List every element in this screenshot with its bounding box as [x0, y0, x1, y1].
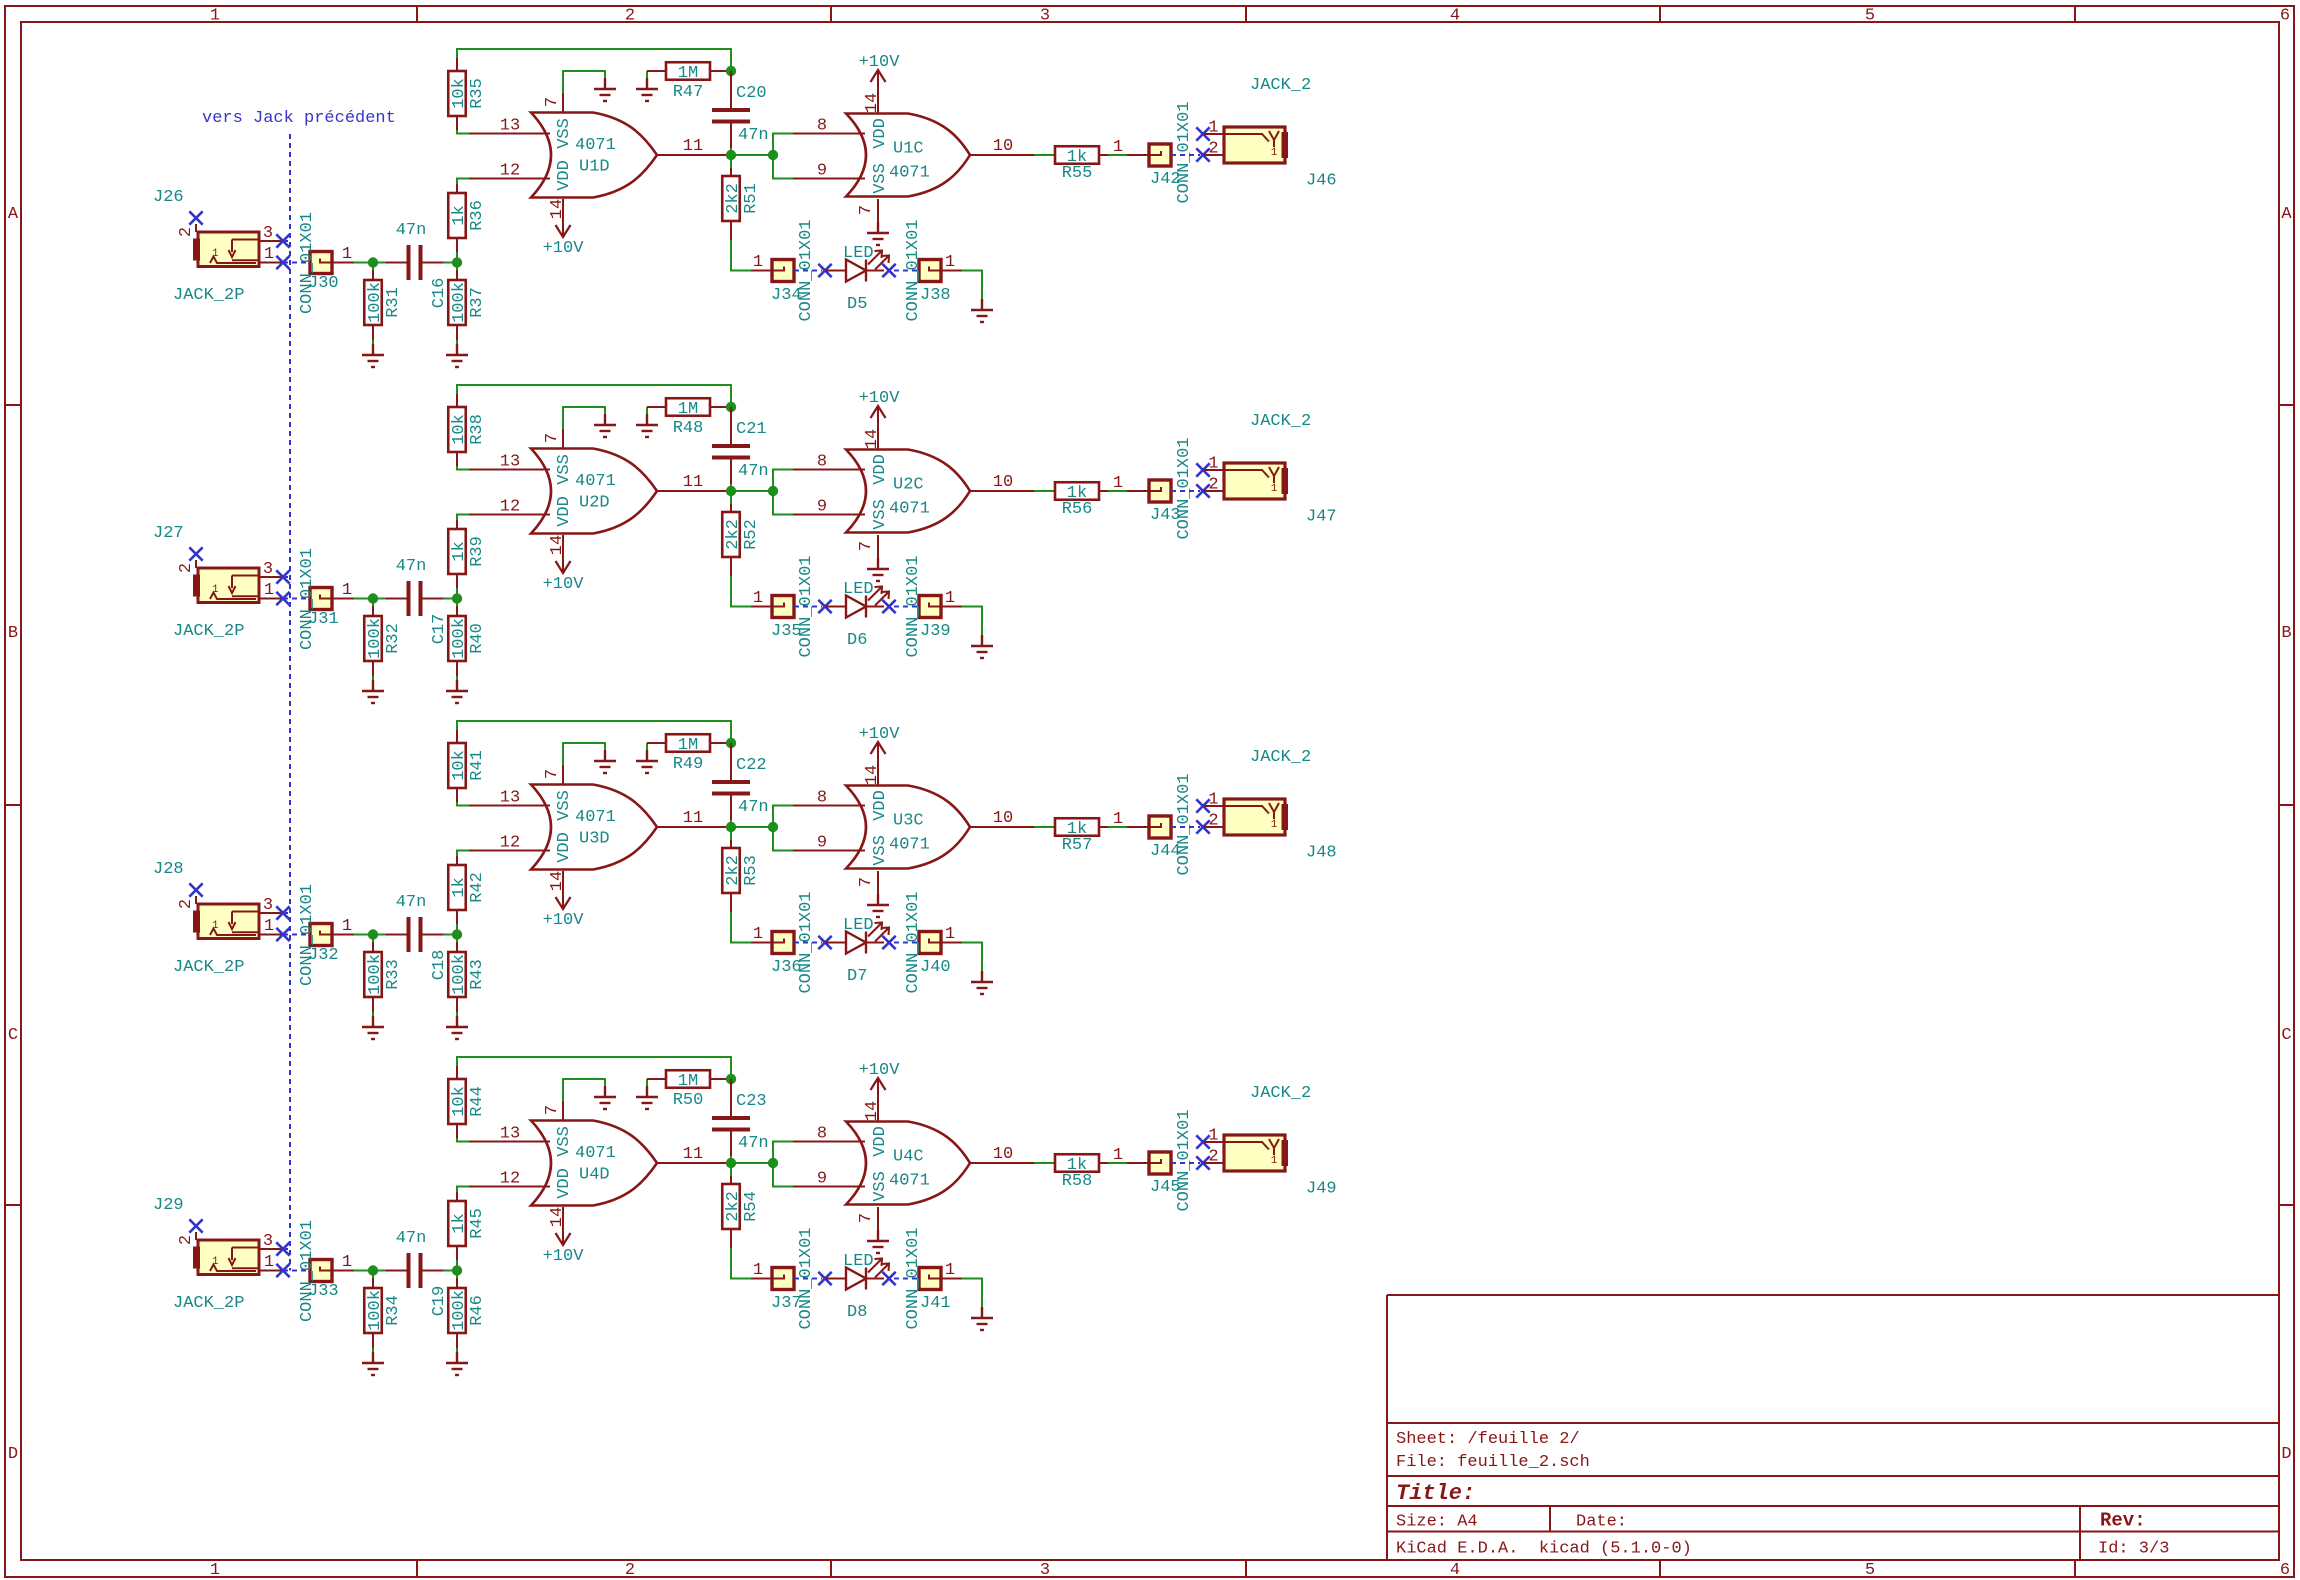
resistor R42 1k: [448, 856, 487, 935]
wire U4C pin 10 to R58: [1034, 1162, 1055, 1164]
wire U4D output to U4C inputs: [731, 1162, 773, 1164]
ground below R43: [446, 1016, 468, 1039]
svg-text:+10V: +10V: [543, 239, 585, 258]
input bracket wires of U2C: [773, 470, 793, 515]
J46 pin 1: [1203, 133, 1224, 135]
svg-text:R43: R43: [468, 959, 487, 990]
connector J29 (JACK_2P audio jack): [193, 1240, 259, 1275]
svg-text:R37: R37: [468, 287, 487, 318]
svg-text:1M: 1M: [678, 64, 698, 83]
U2C pin 9: [793, 514, 865, 516]
svg-text:1M: 1M: [678, 1072, 698, 1091]
no-connect X on J26 pin 1: [276, 256, 289, 269]
J47 pin 2: [1203, 490, 1224, 492]
row letters right: [2281, 205, 2292, 1464]
svg-text:C21: C21: [736, 420, 767, 439]
junction above C20: [726, 66, 736, 76]
svg-text:1: 1: [212, 248, 219, 260]
svg-text:7: 7: [857, 877, 876, 887]
svg-text:VDD: VDD: [555, 160, 574, 191]
svg-text:10k: 10k: [450, 1086, 469, 1117]
svg-text:J28: J28: [153, 860, 184, 879]
svg-text:1: 1: [1208, 1127, 1218, 1146]
junction at R34 top: [368, 1265, 378, 1275]
svg-text:CONN_01X01: CONN_01X01: [904, 219, 923, 321]
wire R55 to J42: [1108, 154, 1127, 156]
svg-text:R31: R31: [384, 287, 403, 318]
svg-text:9: 9: [817, 162, 827, 181]
junction at U2C input bracket: [768, 486, 778, 496]
svg-text:R34: R34: [384, 1295, 403, 1326]
dashed bus link J27 pin 1 to J31: [283, 598, 310, 600]
svg-text:D8: D8: [847, 1303, 867, 1322]
svg-text:J41: J41: [920, 1294, 951, 1313]
dashed bus link J28 pin 1 to J32: [283, 934, 310, 936]
svg-text:8: 8: [817, 789, 827, 808]
svg-text:1M: 1M: [678, 736, 698, 755]
svg-text:R42: R42: [468, 872, 487, 903]
OR gate U1D (4071): [531, 113, 657, 198]
dashed bus line vertical: [289, 134, 291, 1271]
svg-text:1: 1: [753, 1261, 763, 1280]
OR gate U3D (4071): [531, 785, 657, 870]
svg-text:1: 1: [342, 1253, 352, 1272]
wire C17 to R40: [443, 598, 457, 600]
resistor R39 1k: [448, 520, 487, 599]
ground at U2C pin 7: [867, 558, 889, 581]
svg-text:R57: R57: [1062, 836, 1093, 855]
U4D pin 11 output: [657, 1162, 731, 1164]
junction at R43 top: [452, 929, 462, 939]
D8 cathode wire: [866, 1278, 884, 1280]
resistor R45 1k: [448, 1192, 487, 1271]
svg-text:1k: 1k: [450, 541, 469, 561]
wire U1D output to U1C inputs: [731, 154, 773, 156]
OR gate U1C (4071): [846, 114, 970, 197]
svg-text:1: 1: [1271, 147, 1278, 159]
LED D7: [843, 916, 889, 986]
wire U3C pin 10 to R57: [1034, 826, 1055, 828]
svg-text:U3D: U3D: [579, 830, 610, 849]
wire U3D output to U3C inputs: [731, 826, 773, 828]
svg-text:D5: D5: [847, 295, 867, 314]
svg-text:11: 11: [683, 809, 703, 828]
column numbers bottom: [210, 1561, 2290, 1580]
svg-text:J26: J26: [153, 188, 184, 207]
svg-text:1: 1: [1113, 138, 1123, 157]
svg-text:14: 14: [863, 429, 882, 449]
input bracket wires of U1C: [773, 134, 793, 179]
ground at R48 left: [636, 407, 658, 437]
dashed link J36 to D7: [794, 942, 822, 944]
jack J47 (JACK_2): [1224, 463, 1288, 499]
no-connect X at D5 anode: [818, 264, 831, 277]
feedback wire R44 top to C23: [457, 1057, 731, 1079]
ground below R34: [362, 1352, 384, 1375]
svg-text:C: C: [2281, 1026, 2291, 1045]
svg-text:2: 2: [177, 899, 196, 909]
resistor R33 100k: [364, 935, 403, 1017]
svg-text:4071: 4071: [575, 808, 616, 827]
wire R56 to J43: [1108, 490, 1127, 492]
svg-text:D7: D7: [847, 967, 867, 986]
svg-text:13: 13: [500, 453, 520, 472]
dashed link D6 to J39: [894, 606, 919, 608]
svg-text:9: 9: [817, 498, 827, 517]
feedback wire R38 top to C21: [457, 385, 731, 407]
ground below R37: [446, 344, 468, 367]
svg-text:JACK_2: JACK_2: [1250, 76, 1311, 95]
svg-text:10: 10: [993, 809, 1013, 828]
svg-text:CONN_01X01: CONN_01X01: [298, 884, 317, 986]
resistor R37 100k: [448, 263, 487, 345]
svg-text:B: B: [2281, 624, 2291, 643]
svg-text:JACK_2P: JACK_2P: [173, 286, 244, 305]
svg-text:1: 1: [264, 1253, 274, 1272]
ground at U1C pin 7: [867, 222, 889, 245]
svg-text:+10V: +10V: [859, 1061, 901, 1080]
svg-text:11: 11: [683, 137, 703, 156]
svg-text:1: 1: [945, 1261, 955, 1280]
svg-text:1k: 1k: [450, 205, 469, 225]
junction at R40 top: [452, 593, 462, 603]
power +10V at U3D pin 14: [543, 891, 585, 930]
no-connect X at D5 cathode: [882, 264, 895, 277]
power +10V at U3C pin 14: [859, 725, 901, 765]
LED D8: [843, 1252, 889, 1322]
capacitor C21 47n: [712, 407, 769, 491]
J44 pin 1: [1127, 826, 1149, 828]
svg-text:VDD: VDD: [555, 1168, 574, 1199]
svg-text:JACK_2P: JACK_2P: [173, 958, 244, 977]
connector J41 (CONN_01X01): [919, 1268, 941, 1290]
U2C pin 14: [877, 429, 879, 450]
U3C pin 7: [877, 871, 879, 894]
svg-text:1: 1: [1271, 1155, 1278, 1167]
svg-text:1: 1: [210, 1561, 220, 1580]
wire gate input 12 to R36: [457, 179, 469, 185]
svg-text:10: 10: [993, 1145, 1013, 1164]
row ticks right border: [2279, 405, 2294, 1205]
wire R58 to J45: [1108, 1162, 1127, 1164]
U3D pin 14: [562, 871, 564, 891]
resistor R34 100k: [364, 1271, 403, 1353]
row ticks left border: [5, 405, 21, 1205]
svg-text:1: 1: [342, 245, 352, 264]
svg-text:1: 1: [753, 253, 763, 272]
svg-text:R50: R50: [673, 1091, 704, 1110]
U4D pin 7: [562, 1101, 564, 1121]
no-connect X at D8 cathode: [882, 1272, 895, 1285]
wire J30 to C16: [354, 262, 386, 264]
svg-text:LED: LED: [843, 1252, 874, 1271]
no-connect X on J48 pin 2: [1196, 820, 1209, 833]
svg-text:CONN_01X01: CONN_01X01: [298, 212, 317, 314]
capacitor C22 47n: [712, 743, 769, 827]
svg-text:100k: 100k: [450, 1290, 469, 1331]
no-connect X on J28 pin 1: [276, 928, 289, 941]
resistor R49 1M: [647, 734, 731, 774]
svg-text:CONN_01X01: CONN_01X01: [1175, 773, 1194, 875]
resistor R48 1M: [647, 398, 731, 438]
J39 pin 1: [941, 606, 962, 608]
power +10V at U4D pin 14: [543, 1227, 585, 1266]
wire R57 to J44: [1108, 826, 1127, 828]
svg-text:12: 12: [500, 162, 520, 181]
svg-text:2k2: 2k2: [724, 855, 743, 886]
junction at U1C input bracket: [768, 150, 778, 160]
svg-text:R56: R56: [1062, 500, 1093, 519]
J26 pin 3: [259, 240, 283, 242]
resistor R58 1k: [1055, 1154, 1108, 1191]
svg-text:+10V: +10V: [543, 1247, 585, 1266]
LED D5: [843, 244, 889, 314]
svg-text:R44: R44: [468, 1086, 487, 1117]
svg-text:14: 14: [548, 535, 567, 555]
junction above C21: [726, 402, 736, 412]
svg-text:100k: 100k: [366, 1290, 385, 1331]
wire U3D pin 7 to ground: [563, 743, 605, 765]
no-connect X on J29 pin 2: [189, 1219, 202, 1232]
resistor R38 10k: [448, 394, 487, 466]
svg-text:JACK_2: JACK_2: [1250, 412, 1311, 431]
J31 pin 1: [332, 598, 354, 600]
svg-text:R33: R33: [384, 959, 403, 990]
svg-text:2: 2: [1208, 140, 1218, 159]
no-connect X at D6 anode: [818, 600, 831, 613]
U4D pin 12: [469, 1186, 550, 1188]
svg-text:7: 7: [543, 769, 562, 779]
svg-text:14: 14: [863, 93, 882, 113]
svg-text:47n: 47n: [738, 126, 769, 145]
input bracket wires of U4C: [773, 1142, 793, 1187]
svg-text:1: 1: [1271, 483, 1278, 495]
OR gate U4C (4071): [846, 1122, 970, 1205]
svg-text:14: 14: [863, 1101, 882, 1121]
svg-text:1: 1: [1113, 474, 1123, 493]
svg-text:J27: J27: [153, 524, 184, 543]
svg-text:1: 1: [264, 245, 274, 264]
svg-text:14: 14: [863, 765, 882, 785]
svg-text:47n: 47n: [738, 462, 769, 481]
J43 pin 1: [1127, 490, 1149, 492]
svg-text:R58: R58: [1062, 1172, 1093, 1191]
wire R44 to gate input 13: [457, 1138, 469, 1142]
U3C pin 10 output: [970, 826, 1034, 828]
svg-text:R52: R52: [742, 519, 761, 550]
ground at U1D pin 7: [594, 78, 616, 101]
junction at U4C input bracket: [768, 1158, 778, 1168]
U3D pin 13: [469, 805, 550, 807]
svg-text:3: 3: [1040, 1561, 1050, 1580]
dashed link J34 to D5: [794, 270, 822, 272]
ground at R49 left: [636, 743, 658, 773]
ground at R47 left: [636, 71, 658, 101]
ground after J41: [971, 1307, 993, 1330]
no-connect X at D6 cathode: [882, 600, 895, 613]
connector J37 (CONN_01X01): [772, 1268, 794, 1290]
junction at R33 top: [368, 929, 378, 939]
J45 pin 1: [1127, 1162, 1149, 1164]
svg-text:13: 13: [500, 117, 520, 136]
J37 pin 1: [751, 1278, 772, 1280]
svg-text:1: 1: [342, 917, 352, 936]
svg-text:U2C: U2C: [893, 476, 924, 495]
svg-text:3: 3: [263, 896, 273, 915]
svg-text:2k2: 2k2: [724, 519, 743, 550]
junction at R46 top: [452, 1265, 462, 1275]
connector J36 (CONN_01X01): [772, 932, 794, 954]
svg-text:J40: J40: [920, 958, 951, 977]
svg-text:10: 10: [993, 137, 1013, 156]
svg-text:CONN_01X01: CONN_01X01: [298, 1220, 317, 1322]
ground below R31: [362, 344, 384, 367]
svg-text:1: 1: [210, 7, 220, 26]
wire U4D pin 7 to ground: [563, 1079, 605, 1101]
no-connect X on J29 pin 3: [276, 1242, 289, 1255]
svg-text:Title:: Title:: [1396, 1481, 1475, 1506]
svg-text:R46: R46: [468, 1295, 487, 1326]
svg-text:LED: LED: [843, 244, 874, 263]
resistor R54 2k2: [722, 1163, 761, 1248]
J29 pin 1: [259, 1270, 283, 1272]
connector J42 (CONN_01X01): [1149, 144, 1171, 166]
column ticks bottom border: [417, 1560, 2075, 1577]
svg-text:12: 12: [500, 498, 520, 517]
svg-text:U4D: U4D: [579, 1166, 610, 1185]
svg-text:4071: 4071: [575, 136, 616, 155]
J49 pin 2: [1203, 1162, 1224, 1164]
dashed bus jog to J28 pin 3: [283, 912, 290, 914]
no-connect X on J46 pin 2: [1196, 148, 1209, 161]
svg-text:R35: R35: [468, 78, 487, 109]
J32 pin 1: [332, 934, 354, 936]
resistor R52 2k2: [722, 491, 761, 576]
resistor R41 10k: [448, 730, 487, 802]
svg-text:7: 7: [543, 1105, 562, 1115]
connector J45 (CONN_01X01): [1149, 1152, 1171, 1174]
wire R38 to gate input 13: [457, 466, 469, 470]
svg-text:7: 7: [857, 1213, 876, 1223]
wire to D8 anode: [825, 1278, 846, 1280]
svg-text:VDD: VDD: [555, 496, 574, 527]
connector J39 (CONN_01X01): [919, 596, 941, 618]
wire gate input 12 to R45: [457, 1187, 469, 1193]
svg-text:2: 2: [177, 227, 196, 237]
no-connect X on J47 pin 1: [1196, 463, 1209, 476]
OR gate U4D (4071): [531, 1121, 657, 1206]
U2D pin 12: [469, 514, 550, 516]
wire J38 to ground: [962, 271, 982, 300]
U2C pin 8: [793, 469, 865, 471]
no-connect X on J26 pin 2: [189, 211, 202, 224]
svg-text:VDD: VDD: [871, 790, 890, 821]
J26 pin 1: [259, 262, 283, 264]
svg-text:100k: 100k: [450, 618, 469, 659]
ground at R50 left: [636, 1079, 658, 1109]
svg-text:2k2: 2k2: [724, 183, 743, 214]
input bracket wires of U3C: [773, 806, 793, 851]
J26 pin 2: [195, 224, 197, 232]
U3D pin 7: [562, 765, 564, 785]
svg-text:3: 3: [263, 560, 273, 579]
ground at U4C pin 7: [867, 1230, 889, 1253]
power +10V at U1D pin 14: [543, 219, 585, 258]
no-connect X on J48 pin 1: [1196, 799, 1209, 812]
J40 pin 1: [941, 942, 962, 944]
svg-text:VDD: VDD: [871, 118, 890, 149]
svg-text:LED: LED: [843, 916, 874, 935]
resistor R36 1k: [448, 184, 487, 263]
svg-text:+10V: +10V: [859, 389, 901, 408]
OR gate U2C (4071): [846, 450, 970, 533]
svg-text:R53: R53: [742, 855, 761, 886]
svg-text:1k: 1k: [450, 877, 469, 897]
svg-text:VSS: VSS: [555, 790, 574, 821]
ground after J39: [971, 635, 993, 658]
wire C16 to R37: [443, 262, 457, 264]
junction at U3C input bracket: [768, 822, 778, 832]
svg-text:1M: 1M: [678, 400, 698, 419]
svg-text:47n: 47n: [396, 893, 427, 912]
power +10V at U1C pin 14: [859, 53, 901, 93]
svg-text:11: 11: [683, 1145, 703, 1164]
wire U1D pin 7 to ground: [563, 71, 605, 93]
svg-text:JACK_2P: JACK_2P: [173, 1294, 244, 1313]
svg-text:VDD: VDD: [555, 832, 574, 863]
J28 pin 1: [259, 934, 283, 936]
svg-text:47n: 47n: [396, 557, 427, 576]
svg-text:8: 8: [817, 117, 827, 136]
J34 pin 1: [751, 270, 772, 272]
dashed link D7 to J40: [894, 942, 919, 944]
column numbers top: [210, 7, 2290, 26]
svg-text:12: 12: [500, 1170, 520, 1189]
connector J30 (CONN_01X01): [310, 252, 332, 274]
svg-text:4071: 4071: [889, 836, 930, 855]
svg-text:2: 2: [1208, 476, 1218, 495]
no-connect X on J29 pin 1: [276, 1264, 289, 1277]
ground at U3D pin 7: [594, 750, 616, 773]
svg-text:14: 14: [548, 871, 567, 891]
ground at U2D pin 7: [594, 414, 616, 437]
no-connect X on J49 pin 1: [1196, 1135, 1209, 1148]
svg-text:R55: R55: [1062, 164, 1093, 183]
svg-text:VSS: VSS: [871, 163, 890, 194]
U1C pin 10 output: [970, 154, 1034, 156]
svg-text:JACK_2: JACK_2: [1250, 1084, 1311, 1103]
U4C pin 10 output: [970, 1162, 1034, 1164]
J41 pin 1: [941, 1278, 962, 1280]
svg-text:VSS: VSS: [871, 835, 890, 866]
J27 pin 1: [259, 598, 283, 600]
svg-text:C23: C23: [736, 1092, 767, 1111]
junction at R32 top: [368, 593, 378, 603]
ground after J38: [971, 299, 993, 322]
junction at U4D output: [726, 1158, 736, 1168]
no-connect X on J47 pin 2: [1196, 484, 1209, 497]
connector J44 (CONN_01X01): [1149, 816, 1171, 838]
svg-text:B: B: [8, 624, 18, 643]
U3D pin 11 output: [657, 826, 731, 828]
svg-text:9: 9: [817, 1170, 827, 1189]
capacitor C16 47n: [386, 221, 449, 308]
junction above C22: [726, 738, 736, 748]
svg-text:100k: 100k: [450, 282, 469, 323]
U4C pin 14: [877, 1101, 879, 1122]
U3C pin 14: [877, 765, 879, 786]
svg-text:1: 1: [945, 589, 955, 608]
